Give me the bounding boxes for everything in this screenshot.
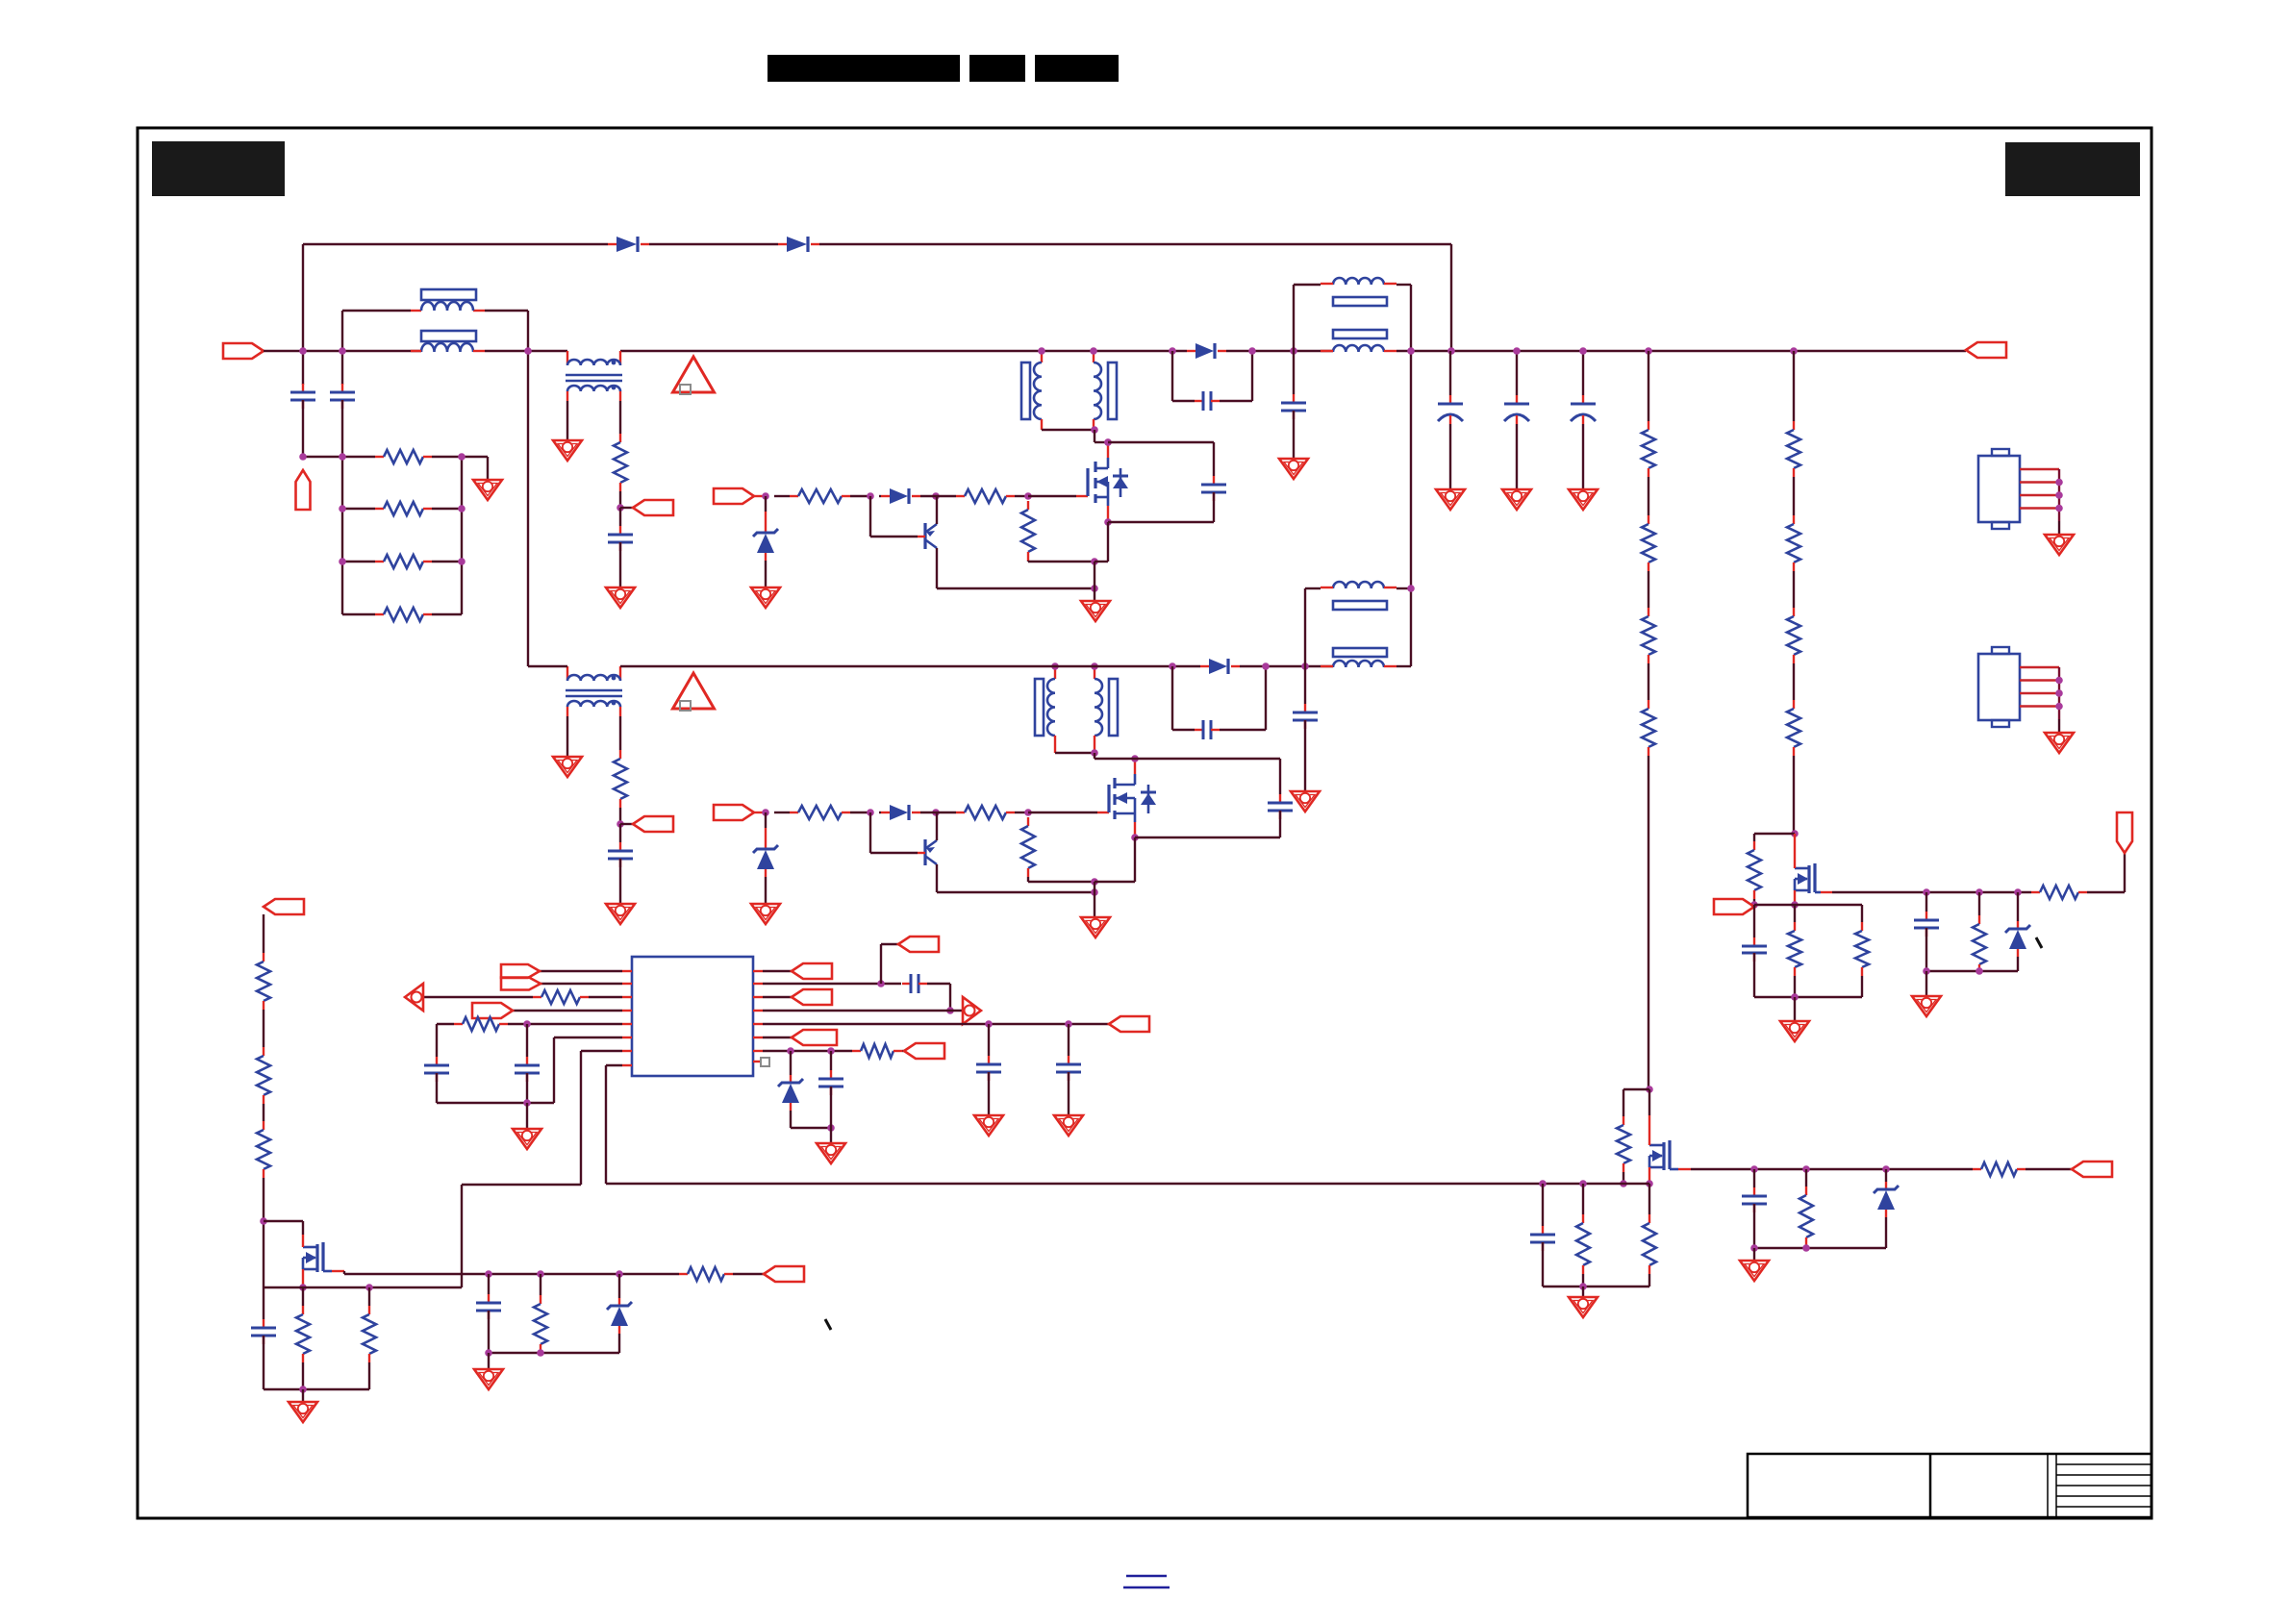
wire bbox=[1623, 1088, 1649, 1090]
wire bbox=[1094, 562, 1095, 601]
resistor R5 bbox=[614, 434, 627, 491]
junction bbox=[1791, 830, 1799, 837]
wire bbox=[341, 351, 343, 385]
capacitor C8 bbox=[1571, 395, 1596, 424]
wire bbox=[774, 812, 790, 813]
wire bbox=[1304, 720, 1306, 791]
wire bbox=[879, 495, 881, 497]
stray mark 2 bbox=[2036, 937, 2042, 948]
resistor R20 bbox=[1617, 1116, 1630, 1172]
connector CN2 bbox=[1978, 647, 2059, 733]
wire bbox=[1294, 284, 1321, 286]
wire bbox=[1108, 521, 1214, 523]
wire bbox=[606, 1064, 622, 1066]
pin 2 bbox=[622, 983, 632, 985]
junction bbox=[932, 809, 940, 816]
wire bbox=[1220, 400, 1252, 402]
pin 4 bbox=[622, 1010, 632, 1012]
wire bbox=[1925, 928, 1927, 971]
wire bbox=[1068, 1024, 1070, 1056]
net flag B+ out bbox=[1966, 342, 2006, 358]
junction bbox=[299, 1284, 307, 1291]
red stub bbox=[1321, 283, 1397, 285]
pin 11 bbox=[753, 996, 763, 998]
junction bbox=[1091, 878, 1098, 886]
wire bbox=[302, 1287, 304, 1306]
wire bbox=[1753, 1248, 1755, 1261]
capacitor C16 bbox=[424, 1057, 449, 1082]
core bar L1 bbox=[421, 289, 476, 300]
junction bbox=[1091, 888, 1098, 896]
wire bbox=[343, 1270, 345, 1272]
junction bbox=[1051, 662, 1059, 670]
capacitor C22 bbox=[251, 1319, 276, 1344]
resistor R29 bbox=[257, 1047, 270, 1104]
ground GND15 bbox=[1569, 1297, 1598, 1317]
ground GND1 bbox=[473, 480, 502, 500]
wire bbox=[1134, 837, 1136, 882]
junction bbox=[1248, 347, 1256, 355]
inductor L1B bbox=[421, 343, 473, 352]
wire bbox=[1172, 400, 1195, 402]
net flag VIN bbox=[223, 343, 264, 359]
wire bbox=[1135, 758, 1280, 760]
junction bbox=[1131, 755, 1139, 762]
wire bbox=[1793, 351, 1795, 421]
wire bbox=[1753, 899, 1755, 905]
capacitor C15 bbox=[1742, 1187, 1767, 1212]
wire bbox=[819, 243, 1451, 245]
wire bbox=[1753, 834, 1755, 841]
wire bbox=[1304, 588, 1306, 666]
net flag vref bbox=[501, 978, 541, 990]
wire bbox=[791, 1127, 831, 1129]
ground GND17 bbox=[513, 1129, 541, 1149]
ground GND20 bbox=[817, 1143, 845, 1163]
wire bbox=[937, 587, 1095, 589]
wire bbox=[264, 1287, 462, 1288]
capacitor C4 bbox=[1195, 391, 1220, 411]
wire bbox=[302, 1362, 304, 1389]
wire bbox=[1293, 285, 1295, 351]
wire bbox=[302, 1389, 304, 1402]
capacitor C14 bbox=[1530, 1226, 1555, 1251]
wire bbox=[263, 1178, 264, 1287]
resistor R14 bbox=[614, 750, 627, 808]
wire bbox=[1926, 970, 2018, 972]
wire bbox=[553, 1037, 555, 1103]
wire bbox=[540, 1274, 541, 1295]
wire bbox=[1794, 997, 1796, 1021]
resistor R33 bbox=[679, 1267, 733, 1281]
wire bbox=[870, 496, 918, 537]
mosfet Q2M bbox=[1109, 759, 1156, 837]
wire bbox=[264, 350, 421, 352]
inductor L3B bbox=[1333, 661, 1384, 667]
wire bbox=[1648, 477, 1649, 515]
wire bbox=[1648, 756, 1649, 1089]
title block bbox=[1748, 1454, 2152, 1517]
junction bbox=[2055, 677, 2063, 685]
wire bbox=[1648, 1274, 1650, 1287]
wire bbox=[1793, 663, 1795, 700]
wire bbox=[620, 665, 1200, 667]
mosfet QR1 bbox=[1795, 863, 1815, 893]
core bar L2 bbox=[1333, 297, 1387, 306]
wire bbox=[461, 457, 463, 614]
wire bbox=[1279, 811, 1281, 837]
mosfet QR2 bbox=[1649, 1140, 1670, 1170]
wire bbox=[1861, 976, 1863, 997]
wire bbox=[1397, 284, 1411, 286]
wire bbox=[432, 456, 462, 458]
ground GND CN2 bbox=[2045, 733, 2074, 753]
junction bbox=[485, 1270, 492, 1278]
wire bbox=[1691, 1168, 1973, 1170]
resistor R7 bbox=[1642, 515, 1655, 571]
snubber coils SN1 bbox=[1021, 351, 1117, 430]
wire bbox=[488, 1353, 490, 1369]
junction bbox=[1104, 438, 1112, 446]
wire bbox=[303, 243, 608, 245]
wire bbox=[462, 456, 488, 458]
wire bbox=[1754, 996, 1862, 998]
junction bbox=[2014, 888, 2022, 896]
wire bbox=[264, 1220, 303, 1222]
junction bbox=[1407, 347, 1415, 355]
zener diode DZ6 bbox=[1874, 1182, 1899, 1217]
wire bbox=[1805, 1246, 1807, 1248]
wire bbox=[1793, 571, 1795, 608]
resistor R18 bbox=[2031, 886, 2087, 899]
junction bbox=[1790, 347, 1798, 355]
junction bbox=[1802, 1165, 1810, 1173]
wire bbox=[344, 1273, 679, 1275]
wire bbox=[1754, 1247, 1886, 1249]
wire bbox=[554, 1037, 622, 1038]
resistor R22 bbox=[1643, 1214, 1656, 1274]
wire riser left bbox=[302, 244, 304, 352]
wire bbox=[581, 1050, 622, 1052]
capacitor C17 bbox=[515, 1057, 540, 1082]
wire bbox=[606, 1183, 1649, 1185]
junction bbox=[617, 504, 624, 512]
wire bbox=[342, 613, 375, 615]
wire bbox=[302, 400, 304, 457]
schematic frame bbox=[138, 128, 2152, 1518]
red stub bbox=[754, 812, 766, 813]
redacted title text 3 bbox=[1035, 55, 1119, 82]
wire bbox=[1794, 905, 1796, 922]
warning symbol W1 bbox=[673, 357, 715, 394]
wire bbox=[302, 1221, 304, 1235]
junction bbox=[458, 505, 466, 512]
junction bbox=[1131, 834, 1139, 841]
wire bbox=[1793, 756, 1795, 834]
wire bbox=[513, 1010, 622, 1012]
wire bbox=[937, 891, 1095, 893]
junction bbox=[1290, 347, 1297, 355]
wire bbox=[870, 812, 918, 853]
resistor Rp2 bbox=[1021, 817, 1035, 877]
wire bbox=[763, 1010, 962, 1012]
resistor R27 bbox=[852, 1044, 902, 1058]
junction bbox=[1923, 888, 1930, 896]
capacitor C1 bbox=[290, 384, 315, 409]
wire bbox=[879, 812, 881, 813]
junction bbox=[1091, 426, 1098, 434]
wire bbox=[263, 914, 264, 953]
resistor R2 bbox=[375, 502, 432, 515]
wire bbox=[1885, 1217, 1887, 1248]
junction bbox=[299, 1386, 307, 1393]
wire bbox=[830, 1128, 832, 1143]
wire bbox=[1028, 561, 1095, 562]
junction bbox=[485, 1349, 492, 1357]
wire bbox=[763, 1050, 852, 1052]
junction bbox=[762, 809, 769, 816]
junction bbox=[827, 1047, 835, 1055]
core bar L3 lower bbox=[1333, 648, 1387, 657]
resistor Rg1b bbox=[956, 489, 1015, 503]
transformer T1 bbox=[566, 351, 622, 401]
junction bbox=[1750, 901, 1758, 909]
junction bbox=[1513, 347, 1521, 355]
wire bbox=[902, 1050, 904, 1052]
wire bbox=[1516, 424, 1518, 489]
wire bbox=[619, 542, 621, 587]
redacted title text 2 bbox=[969, 55, 1025, 82]
wire bbox=[540, 1352, 541, 1354]
wire bbox=[1042, 429, 1095, 431]
wire bbox=[988, 1024, 990, 1056]
wire bbox=[1832, 891, 2031, 893]
wire bbox=[765, 561, 767, 587]
wire bbox=[1135, 837, 1280, 838]
junction bbox=[299, 453, 307, 461]
wire bbox=[263, 1010, 264, 1047]
pin 6 bbox=[622, 1037, 632, 1038]
junction bbox=[339, 347, 346, 355]
wire bbox=[763, 1037, 792, 1038]
core bar L2 lower bbox=[1333, 330, 1387, 338]
capacitor C18 bbox=[902, 974, 927, 993]
wire bbox=[437, 1102, 554, 1104]
wire bbox=[1754, 904, 1862, 906]
wire bbox=[649, 243, 778, 245]
wire bbox=[1107, 522, 1109, 562]
wire bbox=[790, 1111, 792, 1128]
wire bbox=[1582, 1287, 1584, 1297]
junction bbox=[1024, 492, 1032, 500]
resistor R1 bbox=[375, 450, 432, 463]
wire bbox=[461, 1185, 463, 1287]
ground GND19 bbox=[1054, 1115, 1083, 1136]
junction bbox=[985, 1020, 993, 1028]
wire bbox=[436, 1073, 438, 1103]
capacitor C23 bbox=[476, 1294, 501, 1319]
wire bbox=[1648, 1184, 1650, 1214]
inductor L3A bbox=[1333, 582, 1384, 588]
resistor R10 bbox=[1787, 421, 1800, 477]
wire bbox=[489, 1352, 619, 1354]
capacitor C11 bbox=[1293, 704, 1318, 729]
wire bbox=[1015, 495, 1028, 497]
wire bbox=[1648, 571, 1649, 608]
red stub bbox=[1794, 890, 1796, 905]
junction bbox=[1024, 809, 1032, 816]
redacted title text bbox=[768, 55, 960, 82]
stray mark 1 bbox=[825, 1319, 831, 1330]
ground GND CN1 bbox=[2045, 535, 2074, 555]
junction bbox=[867, 809, 874, 816]
junction bbox=[932, 492, 940, 500]
resistor R15 bbox=[1748, 841, 1761, 899]
junction bbox=[1750, 1244, 1758, 1252]
wire bbox=[1027, 877, 1029, 882]
pin 9 bbox=[753, 970, 763, 972]
wire bbox=[1753, 1204, 1755, 1248]
wire bbox=[342, 456, 375, 458]
net arrow sync bbox=[405, 984, 423, 1011]
wire bbox=[1094, 430, 1095, 442]
wire bbox=[1293, 351, 1295, 394]
wire bbox=[1213, 492, 1215, 522]
connector CN1 bbox=[1978, 449, 2059, 535]
wire bbox=[302, 351, 304, 385]
wire bbox=[342, 310, 411, 312]
wire bbox=[264, 1388, 369, 1390]
red stub bbox=[1097, 812, 1109, 813]
wire bbox=[920, 812, 956, 813]
junction bbox=[867, 492, 874, 500]
wire bbox=[619, 824, 621, 842]
resistor R30 bbox=[257, 1121, 270, 1178]
wire bbox=[619, 716, 621, 750]
warning symbol W2 bbox=[673, 673, 715, 711]
net flag 5V in bbox=[1714, 899, 1754, 914]
wire bbox=[619, 508, 621, 526]
ground GND10 bbox=[553, 757, 582, 777]
wire bbox=[850, 495, 870, 497]
wire bbox=[1027, 561, 1029, 562]
junction bbox=[1975, 888, 1983, 896]
mosfet source stub bbox=[1670, 1168, 1691, 1171]
wire bbox=[488, 1311, 490, 1353]
wire bbox=[1623, 1089, 1624, 1116]
wire bbox=[526, 1024, 528, 1057]
diode Dg2 bbox=[881, 805, 920, 820]
resistor R16 bbox=[1788, 922, 1801, 976]
wire bbox=[589, 996, 622, 998]
junction bbox=[339, 453, 346, 461]
wire bbox=[830, 1087, 832, 1128]
capacitor Cs2 bbox=[1268, 794, 1293, 819]
junction bbox=[339, 558, 346, 565]
zener diode DZ7 bbox=[778, 1075, 803, 1111]
wire bbox=[1304, 666, 1306, 704]
wire bbox=[988, 1072, 990, 1115]
ground GND14 bbox=[1912, 996, 1941, 1016]
wire bbox=[1410, 588, 1412, 666]
wire bbox=[368, 1287, 370, 1306]
resistor R13 bbox=[1787, 700, 1800, 756]
wire bbox=[1885, 1169, 1887, 1182]
wire bbox=[1094, 882, 1095, 917]
net flag ss bbox=[898, 937, 939, 952]
junction bbox=[523, 1020, 531, 1028]
ground GNDe1 bbox=[1081, 601, 1110, 621]
wire bbox=[1542, 1184, 1544, 1226]
wire bbox=[540, 970, 622, 972]
ground GND5 bbox=[1436, 489, 1465, 510]
core bar L1 lower bbox=[421, 331, 476, 341]
red stub bbox=[411, 350, 485, 352]
ground GND22 bbox=[474, 1369, 503, 1389]
capacitor C6 bbox=[1438, 395, 1463, 424]
junction bbox=[1091, 585, 1098, 592]
wire bbox=[263, 1104, 264, 1121]
junction bbox=[1262, 662, 1270, 670]
wire bbox=[1095, 561, 1108, 562]
wire bbox=[1226, 350, 1333, 352]
wire riser right bbox=[1450, 244, 1452, 352]
wire bbox=[620, 507, 633, 509]
junction bbox=[2055, 491, 2063, 499]
wire bbox=[1925, 892, 1927, 912]
ground GND16 bbox=[1740, 1261, 1769, 1281]
wire bbox=[423, 996, 533, 998]
resistor R23 bbox=[1973, 1162, 2026, 1176]
junction bbox=[2055, 479, 2063, 487]
net flag outA bbox=[792, 963, 832, 979]
junction bbox=[458, 558, 466, 565]
wire bbox=[881, 943, 898, 945]
wire bbox=[1542, 1242, 1544, 1287]
junction bbox=[1169, 662, 1176, 670]
wire bbox=[1978, 971, 1980, 973]
wire bbox=[488, 1274, 490, 1294]
wire bbox=[765, 812, 767, 828]
wire bbox=[528, 665, 567, 667]
wire bbox=[580, 1051, 582, 1185]
zener diode DZ5 bbox=[2005, 921, 2030, 957]
junction bbox=[1750, 1165, 1758, 1173]
wire bbox=[341, 457, 343, 614]
wire bbox=[1978, 892, 1980, 915]
wire bbox=[342, 508, 375, 510]
red stub bbox=[302, 1269, 304, 1287]
net flag vfb bbox=[904, 1043, 944, 1059]
junction bbox=[1882, 1165, 1890, 1173]
junction bbox=[827, 1124, 835, 1132]
wire bbox=[1015, 812, 1028, 813]
capacitor C2 bbox=[330, 384, 355, 409]
junction bbox=[2055, 703, 2063, 711]
red stub bbox=[1321, 350, 1397, 352]
resistor R4 bbox=[375, 608, 432, 621]
junction bbox=[2055, 689, 2063, 697]
wire bbox=[1861, 905, 1863, 922]
wire bbox=[619, 401, 621, 434]
wire bbox=[880, 944, 882, 984]
wire bbox=[526, 1073, 528, 1103]
wire bbox=[1793, 477, 1795, 515]
junction bbox=[617, 820, 624, 828]
junction bbox=[1539, 1180, 1547, 1187]
net arrow fb out bbox=[963, 997, 981, 1024]
resistor R17 bbox=[1855, 922, 1869, 976]
